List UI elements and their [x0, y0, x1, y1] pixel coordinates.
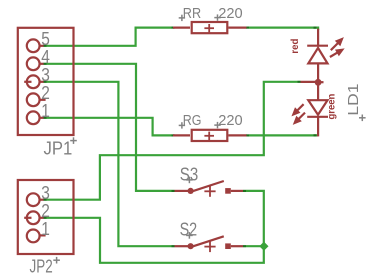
pin connection dot RG right — [246, 134, 249, 136]
LED bottom lead — [317, 117, 319, 137]
svg-text:2: 2 — [41, 83, 50, 103]
RR name origin cross — [179, 15, 185, 21]
resistor RR origin cross — [204, 24, 214, 32]
wire net RR right to LED top — [249, 28, 318, 30]
JP2 origin cross — [53, 257, 60, 264]
pin 2 — [27, 211, 40, 224]
junction node J1 — [259, 242, 268, 251]
S2 left contact — [188, 243, 194, 249]
pin connection dot RR left — [172, 27, 175, 29]
green LED cathode bar — [307, 116, 328, 118]
S2 lever — [189, 236, 224, 247]
pin 2 — [27, 93, 40, 106]
pin 3 — [27, 193, 40, 206]
LED mid junction dot — [315, 79, 322, 86]
switch S3 — [175, 181, 244, 194]
pin 1 — [27, 111, 40, 124]
LED LD1 — [301, 29, 329, 137]
svg-text:220: 220 — [218, 112, 242, 129]
red LED cathode bar — [307, 45, 328, 47]
wire net S3 right to junction — [246, 191, 264, 246]
pin connection dot JP1 pin5 — [43, 45, 46, 47]
svg-text:S2: S2 — [180, 220, 198, 240]
resistor RG — [173, 130, 247, 141]
green LED triangle — [308, 100, 327, 115]
svg-text:3: 3 — [41, 65, 50, 85]
red LED arrow 2 — [330, 49, 344, 57]
svg-text:JP2: JP2 — [30, 256, 53, 276]
pin connection dot RG left — [172, 134, 175, 136]
S2 right contact — [225, 243, 231, 249]
svg-text:1: 1 — [41, 219, 50, 239]
pin connection dot RR right — [246, 27, 249, 29]
S2 origin cross — [204, 241, 215, 252]
svg-text:RR: RR — [183, 5, 201, 22]
connector JP1 — [18, 28, 74, 135]
green LED arrow 2 — [294, 113, 305, 124]
LED mid red wire to junction — [301, 81, 319, 83]
pin connection dot S3 right — [243, 190, 246, 192]
switch S2 — [175, 236, 244, 249]
svg-text:1: 1 — [41, 101, 50, 121]
S3 name origin cross — [186, 177, 193, 184]
pin connection dot JP1 pin4 — [43, 63, 46, 65]
svg-text:red: red — [290, 39, 301, 54]
wire net pin5 to RR left — [46, 28, 172, 46]
LED mid lead upper — [317, 63, 319, 80]
wire net RG right to LED bottom — [249, 134, 318, 136]
pin connection dot LED top — [314, 27, 317, 29]
pin connection dot JP2 pin3 — [43, 199, 46, 201]
wire net S2 right to junction — [246, 245, 264, 247]
svg-text:3: 3 — [41, 183, 50, 203]
S3 right contact — [225, 188, 231, 194]
LED mid lead lower — [317, 85, 319, 101]
svg-text:2: 2 — [41, 201, 50, 221]
S3 left contact — [188, 188, 194, 194]
pin 1 — [27, 230, 40, 243]
pin connection dot LED bottom — [314, 134, 317, 136]
connector JP2 — [18, 180, 74, 254]
pin connection dot S2 left — [172, 245, 175, 247]
JP1 origin cross — [70, 137, 77, 144]
RG value origin cross — [214, 122, 220, 128]
resistor RG origin cross — [204, 132, 214, 140]
RR value origin cross — [214, 14, 220, 20]
pin connection dot S3 left — [172, 190, 175, 192]
svg-text:220: 220 — [218, 5, 242, 22]
pin connection dot JP2 pin2 — [43, 217, 46, 219]
JP2 pin numbers — [41, 183, 50, 239]
svg-text:4: 4 — [41, 47, 50, 67]
pin 3 — [27, 75, 40, 88]
LED top lead — [317, 29, 319, 47]
S3 lever — [189, 181, 224, 192]
pin 4 — [27, 57, 40, 70]
red LED triangle — [308, 48, 327, 64]
svg-text:green: green — [327, 94, 338, 120]
resistor RR — [173, 22, 247, 33]
svg-text:5: 5 — [41, 29, 50, 49]
wire net JP2 pin2 to junction — [46, 218, 264, 263]
wire net LED mid to JP2 pin3 — [46, 82, 298, 200]
wire net pin3 to S2 left — [46, 82, 172, 246]
pin connection dot JP1 pin1 — [43, 117, 46, 119]
S3 origin cross — [204, 186, 215, 197]
svg-text:LD1: LD1 — [346, 84, 362, 116]
svg-text:RG: RG — [183, 112, 202, 129]
wire net pin1 to RG left — [46, 118, 172, 136]
wire net pin4 to S3 left — [46, 64, 172, 191]
LED mid pin stub right — [318, 81, 323, 83]
LD1 origin cross — [359, 115, 366, 122]
JP1 pin numbers — [41, 29, 50, 121]
pin connection dot S2 right — [243, 245, 246, 247]
green LED arrow 1 — [292, 104, 303, 115]
red LED arrow 1 — [331, 38, 343, 50]
pin 5 — [27, 39, 40, 52]
pin connection dot JP1 pin3 — [43, 81, 46, 83]
pin connection dot LED mid — [298, 81, 301, 83]
svg-text:JP1: JP1 — [44, 139, 73, 159]
S2 name origin cross — [186, 232, 193, 239]
RG name origin cross — [179, 122, 185, 128]
